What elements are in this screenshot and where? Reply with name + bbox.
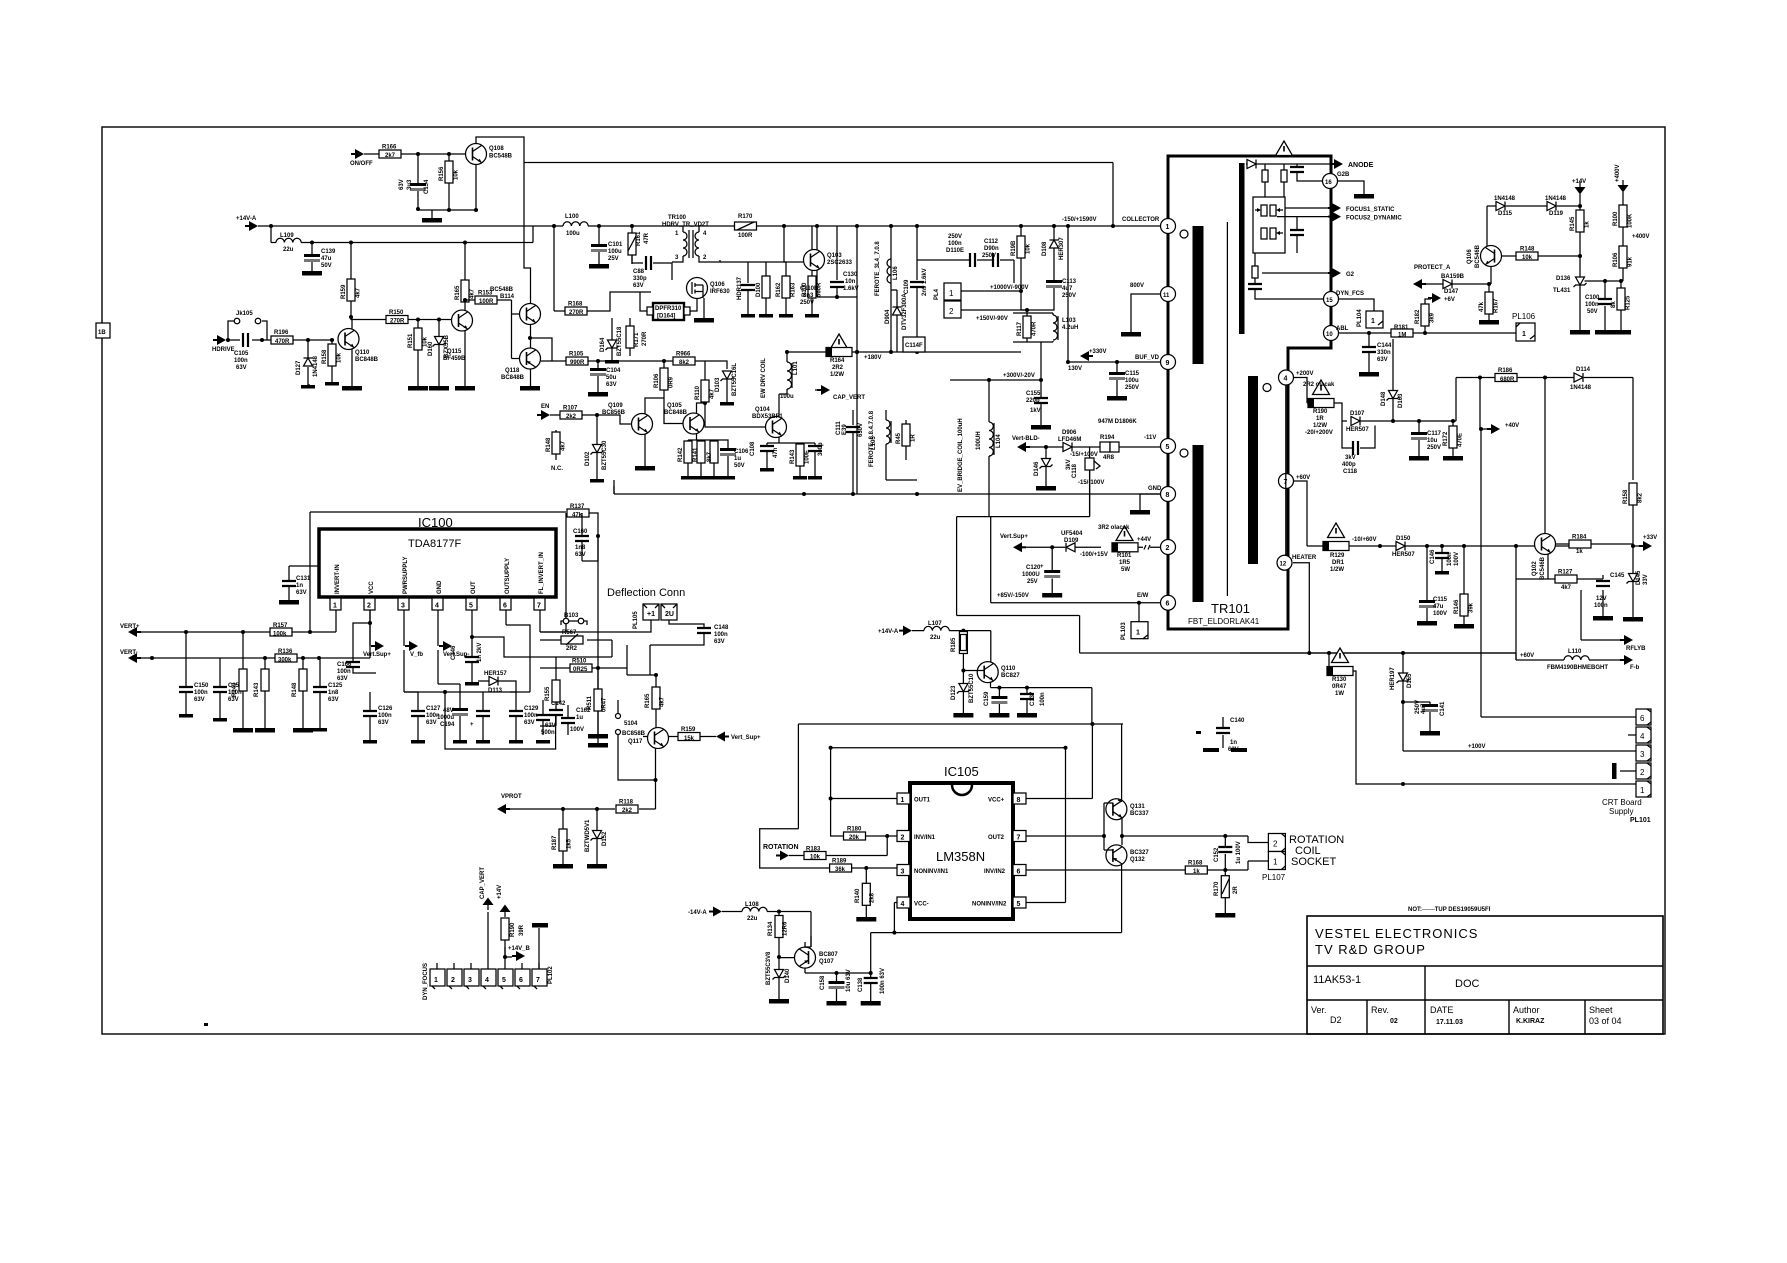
svg-text:R190: R190 <box>1313 409 1328 415</box>
pin box 7 <box>534 598 545 610</box>
pin box 5 <box>1013 897 1026 908</box>
svg-text:+1: +1 <box>647 611 655 618</box>
svg-text:Q109: Q109 <box>608 403 623 409</box>
svg-text:R194: R194 <box>1100 435 1115 441</box>
transistor Q131 BC337 <box>1106 799 1127 820</box>
junction dots vert- <box>150 656 154 660</box>
bottom bus <box>614 486 1161 494</box>
winding bar HV <box>1248 376 1258 564</box>
res D100 <box>748 262 786 314</box>
pin 12 <box>1277 555 1292 570</box>
wire C131 to box <box>289 565 319 567</box>
svg-text:INV/IN2: INV/IN2 <box>984 869 1006 875</box>
diode D164 and zener cluster <box>611 318 613 360</box>
svg-text:BZT55C3V8: BZT55C3V8 <box>766 951 772 985</box>
pin 6 <box>1161 595 1176 610</box>
svg-text:R170: R170 <box>1214 881 1220 896</box>
winding sense dot HV <box>1263 384 1271 392</box>
transistor B114 BC548B <box>520 304 541 325</box>
Q104 emitter caps <box>767 438 815 477</box>
svg-text:IRF630: IRF630 <box>710 289 730 295</box>
svg-text:2: 2 <box>949 307 954 316</box>
pin 7 <box>1279 474 1294 489</box>
emitter chain out2 <box>1122 818 1268 845</box>
E/W bus <box>991 602 1161 604</box>
svg-text:4k7: 4k7 <box>561 440 567 451</box>
svg-text:2k2: 2k2 <box>566 414 577 420</box>
svg-text:50V: 50V <box>1587 309 1598 315</box>
svg-text:R142: R142 <box>678 447 684 462</box>
svg-text:63V: 63V <box>633 283 644 289</box>
ON/OFF arrow <box>351 149 364 159</box>
svg-text:250V: 250V <box>1062 293 1076 299</box>
zener D145 <box>1632 546 1634 617</box>
svg-text:HER507: HER507 <box>1392 552 1415 558</box>
capacitor C150 <box>185 632 187 714</box>
svg-text:HER507: HER507 <box>1346 427 1369 433</box>
svg-text:OUT1: OUT1 <box>914 798 931 804</box>
inductor L107 <box>912 631 991 662</box>
svg-text:B114: B114 <box>500 294 515 300</box>
svg-text:8k2: 8k2 <box>1638 492 1644 503</box>
svg-text:250V: 250V <box>1427 445 1441 451</box>
svg-text:R165: R165 <box>645 693 651 708</box>
svg-text:R156: R156 <box>439 166 445 181</box>
electrolytic C115 <box>1116 362 1118 396</box>
svg-text:BC327: BC327 <box>1130 850 1149 856</box>
svg-text:C145: C145 <box>1610 573 1625 579</box>
svg-text:250V: 250V <box>1125 385 1139 391</box>
pin15 wire to PL104 <box>1339 299 1374 311</box>
svg-text:HER307: HER307 <box>1059 237 1065 260</box>
svg-text:300k: 300k <box>278 658 292 664</box>
pin 10 <box>1324 326 1339 341</box>
resistor R180 20k pin2 <box>831 799 897 837</box>
svg-text:10n: 10n <box>845 279 856 285</box>
svg-text:250V: 250V <box>800 300 814 306</box>
svg-text:C108: C108 <box>750 441 756 456</box>
capacitor C148 <box>650 620 704 675</box>
svg-text:Q106: Q106 <box>1467 249 1473 264</box>
svg-text:D110E: D110E <box>946 248 964 254</box>
svg-text:OUT2: OUT2 <box>988 835 1005 841</box>
D904 link <box>891 289 897 291</box>
capacitor C160 <box>575 536 589 541</box>
wire pin4-pin7-pin12 <box>1285 385 1287 555</box>
pin7 +60V wire <box>1294 481 1580 546</box>
vertical x891 <box>890 226 892 352</box>
base wire to Q104 <box>705 403 766 427</box>
base tie Q131 Q132 <box>1026 803 1113 850</box>
svg-text:3: 3 <box>901 869 905 876</box>
resistor R145 1k <box>1579 206 1581 256</box>
svg-text:ABL: ABL <box>1336 326 1349 332</box>
svg-text:PL105: PL105 <box>633 611 639 629</box>
resistor R159 15k <box>669 736 717 738</box>
svg-text:1: 1 <box>1640 786 1645 795</box>
wire row y377 <box>1456 378 1633 534</box>
svg-text:D164: D164 <box>600 337 606 352</box>
resistor R156 10k <box>448 154 450 210</box>
svg-text:FBT_ELDORLAK41: FBT_ELDORLAK41 <box>1188 617 1260 626</box>
resistor R167 47k <box>1488 284 1490 320</box>
svg-text:1000u: 1000u <box>437 715 454 721</box>
cap return loop under IC100 <box>445 692 556 749</box>
pin5 OUT vertical <box>472 610 540 657</box>
svg-text:BC848B: BC848B <box>355 357 379 363</box>
svg-text:R165: R165 <box>455 285 461 300</box>
svg-text:15: 15 <box>1326 298 1333 304</box>
resistor R117 470R <box>1023 316 1031 338</box>
resistor R182 <box>1425 299 1431 333</box>
svg-text:100n: 100n <box>234 358 248 364</box>
svg-text:EN: EN <box>541 404 549 410</box>
resistor R194 <box>1100 442 1110 452</box>
svg-text:400p: 400p <box>1342 462 1356 468</box>
svg-text:8: 8 <box>1017 797 1021 804</box>
connector PL105 pin1 <box>643 604 659 620</box>
capacitor C140 <box>1222 717 1224 748</box>
svg-text:+6V: +6V <box>1444 297 1455 303</box>
transistor Q108 BC548B <box>466 144 487 165</box>
resistor R134 <box>778 912 780 958</box>
svg-text:R159: R159 <box>681 727 696 733</box>
op-amp IC105 box <box>910 783 1013 919</box>
svg-text:-150/+1590V: -150/+1590V <box>1062 217 1097 223</box>
svg-text:250V: 250V <box>982 253 996 259</box>
svg-text:G2: G2 <box>1346 272 1355 278</box>
svg-text:63V: 63V <box>296 590 307 596</box>
connector PL101 pin 6 <box>1636 709 1651 725</box>
capacitor C149b <box>808 446 822 451</box>
diode D109 UF5404 <box>1066 543 1075 552</box>
V_fb arrow pin3 <box>405 641 418 651</box>
svg-text:Q105: Q105 <box>667 403 682 409</box>
resistor R8k7 <box>710 441 718 463</box>
svg-text:47k: 47k <box>572 513 583 519</box>
svg-text:1/2W: 1/2W <box>1330 567 1344 573</box>
svg-text:D146: D146 <box>1034 461 1040 476</box>
title block outer box <box>1307 916 1663 1034</box>
diode D115 1N4148 <box>1496 202 1505 211</box>
svg-text:TDA8177F: TDA8177F <box>408 538 461 550</box>
pin9 wire BUF_VD <box>1068 226 1161 362</box>
EN arrow left <box>537 410 550 420</box>
RFLYB arrow <box>1581 590 1623 640</box>
svg-text:BZTWD5V1: BZTWD5V1 <box>585 819 591 852</box>
svg-text:C105: C105 <box>234 351 249 357</box>
svg-text:GND: GND <box>437 580 443 594</box>
svg-text:C160: C160 <box>573 529 588 535</box>
svg-text:-11V: -11V <box>1144 435 1156 441</box>
svg-text:Rev.: Rev. <box>1371 1005 1389 1015</box>
svg-text:L104: L104 <box>996 434 1002 448</box>
svg-text:C88: C88 <box>633 269 645 275</box>
svg-text:47u: 47u <box>1433 604 1444 610</box>
Q102 emitter to R127 <box>1516 546 1555 660</box>
fusible R129 <box>1328 523 1345 538</box>
svg-text:C138: C138 <box>858 977 864 992</box>
title block <box>1307 907 1663 1034</box>
svg-text:ANODE: ANODE <box>1348 162 1374 169</box>
svg-text:1R5: 1R5 <box>1119 560 1131 566</box>
svg-text:1N4148: 1N4148 <box>313 355 319 377</box>
svg-text:3: 3 <box>468 977 472 984</box>
+14V power arrow <box>1575 182 1586 195</box>
svg-text:100V: 100V <box>570 727 584 733</box>
svg-text:2k2: 2k2 <box>622 808 633 814</box>
svg-text:C146: C146 <box>1430 549 1436 564</box>
svg-text:HDRV_TR_VD2T: HDRV_TR_VD2T <box>662 222 709 228</box>
svg-text:Vert_Sup+: Vert_Sup+ <box>731 735 761 741</box>
svg-text:C150: C150 <box>194 683 209 689</box>
svg-text:C131: C131 <box>296 576 311 582</box>
svg-text:4k7: 4k7 <box>710 388 716 399</box>
svg-text:R127: R127 <box>1558 570 1573 576</box>
svg-text:2SC2633: 2SC2633 <box>827 260 853 266</box>
resistor R106 <box>664 361 683 424</box>
svg-text:-10/+60V: -10/+60V <box>1352 537 1377 543</box>
svg-text:R141: R141 <box>693 447 699 462</box>
svg-text:C126: C126 <box>378 706 393 712</box>
svg-text:Jk105: Jk105 <box>236 311 253 317</box>
svg-text:470E: 470E <box>1458 433 1464 447</box>
svg-text:R185: R185 <box>951 637 957 652</box>
svg-text:D150: D150 <box>1396 536 1411 542</box>
electrolytic C141 <box>1403 702 1430 731</box>
svg-text:NONINV/IN2: NONINV/IN2 <box>972 902 1007 908</box>
svg-text:C101: C101 <box>608 242 623 248</box>
svg-text:DATE: DATE <box>1430 1005 1453 1015</box>
MOSFET gnd <box>703 298 705 318</box>
svg-text:7: 7 <box>1017 835 1021 842</box>
svg-text:FOCUS1_STATIC: FOCUS1_STATIC <box>1346 207 1395 213</box>
electrolytic C159 <box>998 688 1000 713</box>
svg-text:Vert.Sup+: Vert.Sup+ <box>363 652 391 658</box>
resistor R142 2k2 <box>684 441 692 463</box>
staircase wire <box>957 517 1516 653</box>
transistor Q109 BC856B <box>632 414 653 435</box>
svg-text:100UH: 100UH <box>976 431 982 450</box>
svg-text:+60V: +60V <box>1296 475 1310 481</box>
svg-text:BC546B: BC546B <box>1540 556 1546 580</box>
svg-text:Sheet: Sheet <box>1589 1005 1613 1015</box>
trimmer R567 <box>561 636 583 644</box>
svg-text:L101: L101 <box>793 361 799 375</box>
svg-text:-15/+100V: -15/+100V <box>1070 452 1098 458</box>
svg-text:Q108: Q108 <box>489 146 504 152</box>
svg-text:D119: D119 <box>1549 211 1564 217</box>
svg-text:HER197: HER197 <box>1390 667 1396 690</box>
CRT supply pin6 wire <box>1481 716 1636 718</box>
resistor R118 2k2 <box>616 805 638 813</box>
focus pot arrow 2 <box>1276 231 1280 235</box>
svg-text:Q117: Q117 <box>628 739 643 745</box>
connector PL102 boxes <box>430 969 547 989</box>
svg-text:2R2 olacak: 2R2 olacak <box>1303 382 1335 388</box>
svg-text:R129: R129 <box>1330 553 1345 559</box>
svg-text:63V: 63V <box>606 382 617 388</box>
svg-text:270R: 270R <box>569 310 584 316</box>
svg-text:100n: 100n <box>337 669 351 675</box>
svg-text:1n 2kV: 1n 2kV <box>477 643 483 662</box>
transistor Q106b BC546B <box>1481 246 1502 267</box>
svg-text:B103: B103 <box>564 613 579 619</box>
EW coil L101 <box>787 362 792 389</box>
svg-text:PL106: PL106 <box>1512 312 1536 321</box>
svg-text:+: + <box>470 722 474 728</box>
svg-text:PROTECT_A: PROTECT_A <box>1414 265 1451 271</box>
svg-text:10k: 10k <box>337 352 343 363</box>
heater wire junction to 100V <box>1403 702 1636 751</box>
svg-text:630V: 630V <box>858 423 864 437</box>
HDRIVE wire and jumper Jk105 <box>226 321 332 340</box>
op-amp U IC100 box <box>319 529 556 597</box>
svg-text:C130: C130 <box>843 272 858 278</box>
svg-text:3u3: 3u3 <box>407 179 413 190</box>
Q110a collector <box>351 317 353 329</box>
diode D906 LFD46M <box>1063 443 1072 452</box>
svg-text:100n: 100n <box>1040 692 1046 706</box>
resistor R150 270R <box>386 316 408 324</box>
svg-text:BC848B: BC848B <box>664 410 688 416</box>
svg-text:+14V: +14V <box>1572 179 1586 185</box>
capacitor C146 pin5 <box>471 637 473 657</box>
svg-text:63V: 63V <box>194 697 205 703</box>
svg-text:G2B: G2B <box>1337 172 1350 178</box>
svg-text:C118: C118 <box>1343 469 1358 475</box>
pin10 ABL wire <box>1339 332 1516 334</box>
svg-text:C194: C194 <box>440 722 455 728</box>
svg-text:4k7: 4k7 <box>660 696 666 707</box>
L104 riser <box>990 517 992 603</box>
svg-text:3kV: 3kV <box>1345 455 1356 461</box>
HDRIVE arrow <box>213 335 226 345</box>
Vert_Sup- arrow pin4 <box>439 641 452 651</box>
svg-text:10: 10 <box>1326 332 1333 338</box>
svg-text:R168: R168 <box>568 302 583 308</box>
resistor R157 100k <box>270 628 292 636</box>
svg-text:1: 1 <box>333 603 337 610</box>
inner black bar <box>1239 163 1245 334</box>
svg-text:V_fb: V_fb <box>410 652 423 658</box>
svg-text:BC548B: BC548B <box>490 287 514 293</box>
svg-text:20k: 20k <box>849 835 860 841</box>
svg-text:470R: 470R <box>275 339 290 345</box>
svg-text:R19B: R19B <box>1011 240 1017 256</box>
transistor Q132 BC327 <box>1106 845 1127 866</box>
svg-text:100R: 100R <box>738 233 753 239</box>
resistor R171 <box>629 318 631 356</box>
svg-text:CAP_VERT: CAP_VERT <box>833 395 865 401</box>
zener D146 <box>1045 447 1047 486</box>
connector PL107 socket 2 <box>1268 834 1285 852</box>
svg-text:BZT55C30: BZT55C30 <box>602 440 608 470</box>
FOCUS_DYNAMIC wire <box>1277 216 1334 218</box>
svg-text:Q132: Q132 <box>1130 857 1145 863</box>
connector PL104 <box>1366 311 1383 328</box>
svg-text:+14V: +14V <box>497 885 503 899</box>
svg-text:FEROTE_8.8.4.7.0.8: FEROTE_8.8.4.7.0.8 <box>869 410 875 467</box>
svg-text:EV_BRIDGE_COIL_100uH: EV_BRIDGE_COIL_100uH <box>958 418 964 492</box>
diode D119 1N4148 <box>1547 202 1556 211</box>
svg-text:Ver.: Ver. <box>1311 1005 1327 1015</box>
svg-text:D115: D115 <box>1498 211 1513 217</box>
VPROT arrow <box>497 804 510 814</box>
svg-text:220p: 220p <box>1026 398 1040 404</box>
svg-text:+150V/-90V: +150V/-90V <box>976 316 1008 322</box>
svg-text:BZT55C18: BZT55C18 <box>617 326 623 356</box>
svg-text:D155: D155 <box>1407 673 1413 688</box>
-14V-A arrow <box>709 907 722 917</box>
resistor R183 10k <box>789 836 887 856</box>
ground Q108 <box>422 218 442 223</box>
svg-text:1R: 1R <box>911 434 917 442</box>
svg-text:BA159B: BA159B <box>1441 274 1465 280</box>
TL431 D136 <box>1579 256 1581 330</box>
svg-text:4: 4 <box>435 603 439 610</box>
svg-text:4R8: 4R8 <box>1103 455 1115 461</box>
svg-text:IC105: IC105 <box>944 764 979 779</box>
svg-text:+40V: +40V <box>1505 423 1519 429</box>
wires DPFR310 <box>640 292 697 311</box>
svg-text:6: 6 <box>1640 714 1645 723</box>
svg-text:R162: R162 <box>776 282 782 297</box>
svg-text:300p: 300p <box>818 442 824 456</box>
-Fb arrow <box>1620 655 1633 665</box>
divider bottom res stubs <box>1254 253 1256 284</box>
svg-text:1u 100V: 1u 100V <box>1236 841 1242 864</box>
svg-text:NONINV/IN1: NONINV/IN1 <box>914 869 949 875</box>
svg-text:VERT-: VERT- <box>120 650 138 656</box>
resistor R125 8k <box>1620 281 1622 330</box>
svg-text:680R: 680R <box>1500 377 1515 383</box>
svg-text:R146: R146 <box>1454 599 1460 614</box>
capacitor C144 <box>1362 347 1376 352</box>
svg-text:63V: 63V <box>575 552 586 558</box>
protection cap C118 <box>1089 447 1091 517</box>
core line <box>1226 222 1228 596</box>
svg-text:+400V: +400V <box>1632 234 1650 240</box>
C162 1u <box>567 705 569 735</box>
C128 <box>482 692 484 740</box>
res R163 <box>720 262 786 314</box>
svg-text:5W: 5W <box>1121 567 1130 573</box>
svg-text:4.2uH: 4.2uH <box>1062 325 1078 331</box>
svg-text:D136: D136 <box>1556 276 1571 282</box>
svg-text:D148: D148 <box>1381 391 1387 406</box>
svg-text:L110: L110 <box>1568 649 1582 655</box>
resistor R45 1R <box>905 420 907 460</box>
svg-text:1N4148: 1N4148 <box>1545 196 1567 202</box>
sheet ref tab <box>96 323 110 338</box>
svg-text:4u7: 4u7 <box>1421 703 1427 714</box>
svg-text:OUT: OUT <box>471 581 477 594</box>
svg-text:D90n: D90n <box>984 246 999 252</box>
wire R159 to R150 <box>351 317 452 320</box>
Q109 collector <box>645 398 664 414</box>
connector PL107 socket 1 <box>1268 852 1285 870</box>
wire R130 right then down to PL101 pin1 <box>1353 671 1636 784</box>
svg-text:100n: 100n <box>1447 552 1453 566</box>
coil L104 <box>988 400 990 517</box>
svg-text:4: 4 <box>485 977 489 984</box>
svg-text:63V: 63V <box>328 697 339 703</box>
svg-text:R166: R166 <box>382 145 397 151</box>
warning triangle R101 <box>1116 526 1133 541</box>
electrolytic C120 <box>1051 547 1053 593</box>
connector PL101 pin 3 <box>1636 745 1651 761</box>
